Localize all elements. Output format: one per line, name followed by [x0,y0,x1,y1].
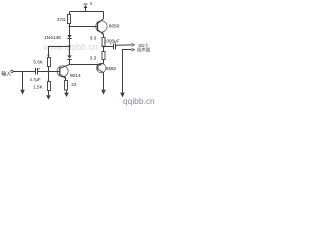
diode D1 1N4148 [67,35,71,39]
svg-text:3.3: 3.3 [90,35,97,40]
svg-text:8050: 8050 [109,24,120,30]
svg-text:9014: 9014 [70,73,81,79]
arrow output bottom [132,48,135,51]
diode D2 1N4148 [67,55,71,59]
wire emitter 8050 to R3.3 [103,34,105,37]
ground 22 [64,93,69,97]
wire 1.5K to ground [48,91,50,96]
wire R47 to D1 [69,24,71,36]
wire base 8050 [70,26,98,28]
wire node to 1.5K [48,72,50,82]
wire cap to output arrow [116,44,132,46]
wire speaker return [123,50,132,93]
svg-text:+: + [38,66,41,71]
wire diode mid to divider top [49,47,70,58]
resistor R 3.3 upper [102,38,105,47]
transistor Q1 9014 [57,66,68,81]
wire top rail [70,11,104,13]
capacitor C1 4.7uF [36,68,38,75]
svg-text:1N4148: 1N4148 [44,35,61,41]
ground 1.5K [46,95,51,99]
svg-text:扬声器: 扬声器 [137,47,151,54]
node base 8050 [69,26,71,28]
input terminal [11,70,13,72]
wire rail to R 47 [69,12,71,15]
svg-text:8550: 8550 [106,66,117,71]
transistor Q3 8550 [96,63,106,73]
node divider top [48,54,50,56]
wire R3.3 to 8550 [103,60,105,64]
resistor R 1.5K [48,82,51,91]
wire R3.3 to R3.3 [103,47,105,52]
svg-text:4.7μF: 4.7μF [30,77,41,82]
svg-text:1000μF: 1000μF [104,38,121,43]
ground 8550 [101,90,106,95]
ground input [20,90,25,95]
node diode mid [69,46,71,48]
node divider mid [48,71,50,73]
wire cap to base [38,71,60,73]
resistor R 3.3 lower [102,52,105,60]
wire 5.6K to node [48,67,50,72]
arrow output top [132,44,135,47]
wire base 8550 [70,64,98,66]
svg-text:5.6K: 5.6K [33,59,43,64]
wire collector 8050 to rail [103,12,105,19]
power supply arrow [84,4,88,12]
svg-text:9: 9 [90,1,93,6]
svg-text:3.3: 3.3 [90,55,97,60]
svg-text:1.5K: 1.5K [33,84,43,89]
wire input to cap [13,71,35,73]
wire D2 to node [69,60,71,65]
transistor Q1 9014 collector lead [60,65,69,69]
svg-text:47Ω: 47Ω [57,17,66,22]
node output [103,46,105,48]
svg-text:输入: 输入 [1,71,11,78]
wire 8550 to ground [103,73,105,90]
svg-text:qqibb.cn: qqibb.cn [123,96,155,106]
wire D1 to D2 [69,39,71,56]
resistor R 22 [65,81,68,91]
wire shield drop [22,72,24,90]
wire output node to cap [104,46,114,48]
svg-text:22: 22 [71,82,77,87]
wire 22 to ground [66,90,68,93]
resistor R 5.6K [48,58,51,67]
resistor R 47ohm [68,15,71,24]
transistor Q2 8050 [96,19,107,35]
capacitor C2 1000uF [114,44,116,50]
ground speaker [120,93,125,98]
